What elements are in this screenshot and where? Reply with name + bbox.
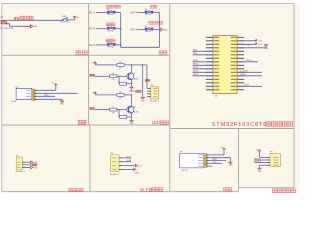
wire PB10 to MCU — [193, 61, 213, 63]
push button S2 — [107, 25, 116, 32]
svg-text:S4: S4 — [145, 9, 147, 11]
ground GND at OLED — [134, 168, 140, 175]
label key function 1 — [106, 5, 121, 8]
ground GND at LED header — [141, 97, 146, 103]
wire LED2 to R2b — [95, 109, 110, 111]
svg-text:Header 3: Header 3 — [16, 170, 26, 173]
svg-text:KEY5: KEY5 — [131, 28, 138, 31]
wire +5V to R2a — [95, 94, 117, 96]
wire S3 to bus — [116, 44, 121, 46]
wire S1 to bus — [116, 12, 121, 14]
wire MCU KEY1 pin — [237, 61, 258, 63]
svg-text:SW-PB: SW-PB — [107, 30, 114, 32]
power +5V at MCU — [255, 43, 262, 47]
ground GND at MCU — [264, 45, 269, 50]
power +5V at P3 — [220, 147, 226, 150]
svg-text:SW1: SW1 — [62, 16, 66, 18]
connector P3 bracket — [180, 154, 204, 168]
wire P3 RXD — [207, 160, 226, 162]
switch SW1 SW-SPDT — [62, 18, 75, 21]
svg-text:GND: GND — [228, 165, 233, 167]
wire KEY5 to MCU — [193, 71, 213, 73]
wire key bus left vertical — [120, 13, 122, 48]
wire P3 GND — [207, 158, 230, 162]
svg-text:S8050: S8050 — [133, 112, 138, 114]
wire P4 VCC — [35, 86, 56, 91]
connector P1 OLED Header 4 — [111, 155, 119, 172]
ground GND LED circuit 1 — [130, 86, 135, 92]
net label 灯珠 near Q1 — [136, 90, 142, 92]
wire PB11 to MCU — [193, 64, 213, 66]
section label 程序下载口 — [272, 189, 296, 193]
wire MCU GND pin — [237, 45, 266, 48]
wire P3 TXD — [207, 162, 222, 164]
svg-text:SW-PB: SW-PB — [107, 47, 114, 49]
junction circuit 2 — [131, 94, 132, 95]
svg-text:S8050: S8050 — [129, 91, 136, 93]
resistor R1c — [120, 82, 127, 85]
section label 蓝牙 module — [78, 120, 86, 124]
svg-text:S2: S2 — [107, 25, 109, 27]
svg-text:S1: S1 — [107, 9, 109, 11]
junction base circuit 2 — [118, 109, 119, 110]
wire SWD +5V — [260, 152, 267, 158]
wire MCU C_TIM pin — [237, 71, 262, 73]
junction circuit 1 — [131, 64, 132, 65]
transistor Q1 — [127, 73, 138, 81]
label key function 3 — [106, 39, 115, 42]
svg-text:KEY1: KEY1 — [89, 12, 96, 15]
svg-text:RXD: RXD — [212, 159, 217, 161]
ground GND at P4 — [60, 100, 65, 106]
net label 人体 signal — [32, 164, 37, 166]
wire collector node circuit 2 — [124, 94, 132, 96]
junction base circuit 1 — [118, 76, 119, 77]
wire MCU PWM pin — [237, 75, 262, 77]
wire key bus right vertical — [159, 13, 161, 48]
junction key bus right — [159, 29, 161, 31]
wire S5 to bus — [154, 29, 160, 31]
wire SWDIO — [255, 159, 267, 161]
svg-text:S8050: S8050 — [133, 78, 138, 80]
resistor R2c — [120, 116, 127, 119]
connector P4 pads — [26, 89, 36, 100]
wire KEY5 to S5 — [137, 29, 144, 31]
svg-text:BLE: BLE — [245, 85, 250, 87]
svg-text:GND: GND — [258, 171, 263, 173]
wire P4 RXD — [35, 95, 55, 97]
wire P3 state — [207, 165, 212, 167]
wire emitter to GND 2 — [131, 113, 133, 119]
wire LED header drop — [146, 65, 148, 89]
wire R1c to emitter node — [127, 83, 132, 85]
wire R1b to base — [117, 75, 127, 77]
wire MCU BLE pin — [237, 85, 262, 87]
power +5V at P4 — [51, 83, 58, 86]
svg-text:C_TIM3: C_TIM3 — [240, 71, 249, 73]
svg-text:BT04: BT04 — [12, 101, 17, 103]
svg-text:GND: GND — [34, 167, 39, 169]
wire connector to switch — [9, 19, 62, 21]
section label 人体感应 — [68, 188, 83, 192]
svg-text:SC-45W32-16P: SC-45W32-16P — [0, 28, 14, 30]
svg-text:Header 4: Header 4 — [110, 173, 120, 176]
connector P6 USB 5V input — [1, 20, 10, 26]
svg-text:RXD: RXD — [44, 95, 49, 97]
transistor Q2 — [127, 106, 138, 114]
wire KEY2 to S2 — [96, 28, 107, 30]
power +5V at switch output — [73, 16, 80, 20]
net label LED2 — [90, 107, 95, 109]
net label LED1 — [90, 74, 95, 76]
ground GND at P5 — [31, 166, 39, 170]
label key function 5 — [148, 21, 162, 24]
wire P3 VCC — [207, 150, 224, 155]
wire P5 signal — [26, 164, 32, 166]
wire PA0 to MCU — [193, 50, 213, 52]
ground GND LED circuit 2 — [130, 120, 135, 126]
wire connector to GND stub — [10, 25, 31, 27]
svg-text:GND: GND — [130, 123, 135, 125]
resistor R1b — [110, 73, 117, 81]
wire LED1 to MCU — [193, 75, 213, 77]
svg-text:KEY4: KEY4 — [131, 12, 138, 15]
wire R2c to emitter node — [127, 116, 132, 118]
section label 蓝牙 — [223, 187, 231, 191]
wire P4 TXD long — [35, 92, 78, 94]
svg-text:SDA: SDA — [127, 159, 132, 162]
power +5V rail LED circuit 1 — [91, 62, 96, 65]
wire MCU 5V pin — [237, 43, 256, 45]
section label 电源 — [76, 51, 88, 55]
wire collector drop circuit 1 — [131, 65, 133, 73]
ground GND of keys — [161, 28, 169, 32]
svg-text:PWM: PWM — [240, 74, 246, 76]
ground GND at SWD — [258, 167, 263, 173]
wire KEY3 to S3 — [96, 44, 107, 46]
svg-text:KEY2: KEY2 — [89, 28, 96, 31]
wire base divider drop 1 — [118, 76, 120, 83]
power +5V at P5 — [31, 161, 38, 164]
push button S4 — [145, 9, 154, 16]
junction key bus left — [120, 28, 122, 30]
wire SWCLK — [255, 162, 267, 164]
connector P4 bracket — [16, 88, 32, 99]
svg-text:Header 4: Header 4 — [150, 100, 160, 103]
svg-text:GND: GND — [60, 104, 65, 106]
svg-text:+5V: +5V — [258, 44, 262, 46]
connector P5 Header 3 — [16, 157, 22, 170]
wire emitter to GND 1 — [131, 80, 133, 86]
wire MCU VDD to +3.3 — [237, 40, 256, 42]
wire OLED SCL — [123, 157, 131, 159]
svg-text:SW-PB: SW-PB — [145, 14, 152, 16]
wire S4 to bus — [154, 12, 160, 14]
MCU pins — [206, 37, 244, 91]
svg-text:GND: GND — [164, 29, 169, 31]
power +3.3 at OLED — [135, 164, 142, 167]
wire OLED VCC — [123, 165, 136, 167]
connector P3 pads — [198, 154, 208, 167]
ground GND at power connector — [30, 25, 38, 29]
resistor R2b — [110, 107, 117, 115]
push button S3 — [107, 42, 116, 49]
label key function 4 — [150, 5, 157, 8]
wire P5 +5V — [26, 161, 31, 163]
ground GND at P3 — [228, 161, 233, 167]
svg-text:SW-PB: SW-PB — [107, 14, 114, 16]
wire KEY1 to S1 — [96, 12, 107, 14]
svg-text:GND: GND — [141, 100, 146, 102]
svg-text:STM32F103C8T6: STM32F103C8T6 — [212, 122, 268, 128]
wire KEY4 to S4 — [137, 12, 144, 14]
push button S5 — [145, 26, 154, 33]
wire base divider drop 2 — [118, 110, 120, 117]
wire +5V to R1a — [95, 64, 117, 66]
wire collector node circuit 1 — [124, 64, 147, 66]
wire S2 to bus — [116, 28, 121, 30]
svg-text:SW-SPDT: SW-SPDT — [60, 22, 70, 24]
svg-text:HC-05: HC-05 — [182, 170, 187, 172]
label key function 2 — [106, 23, 115, 26]
svg-text:S5: S5 — [145, 26, 147, 28]
power +5V at SWD — [255, 150, 261, 152]
wire P4 GND — [35, 98, 62, 101]
wire OLED GND — [123, 168, 134, 170]
svg-text:KEY1: KEY1 — [247, 60, 253, 62]
resistor R2a — [117, 92, 124, 100]
connector P6 SWD header — [270, 154, 280, 167]
section label 按键 — [159, 51, 167, 55]
wire collector drop circuit 2 — [131, 95, 133, 106]
push button S1 — [107, 9, 116, 16]
svg-text:KEY3: KEY3 — [89, 44, 96, 47]
power +3.3 at MCU — [255, 39, 263, 43]
wire PA1 to MCU — [193, 54, 213, 56]
wire OLED SDA — [123, 161, 131, 163]
net label BZ on LED wire — [145, 79, 150, 81]
svg-text:GND: GND — [33, 26, 38, 28]
power +5V rail LED circuit 2 — [91, 92, 96, 95]
wire P5 GND — [26, 166, 31, 168]
svg-text:LED: LED — [152, 120, 161, 125]
svg-text:GND: GND — [264, 48, 269, 50]
junction LED rail — [142, 64, 143, 65]
wire R2b to base — [117, 109, 127, 111]
connector P2 LED header — [151, 87, 159, 99]
svg-text:SW-PB: SW-PB — [145, 31, 152, 33]
wire LED1 to R1b — [95, 75, 110, 77]
wire KEY4 to MCU — [193, 68, 213, 70]
MCU U2 STM32F103C8T6 — [213, 36, 237, 94]
svg-text:S3: S3 — [107, 42, 109, 44]
svg-text:SWCLK: SWCLK — [254, 161, 262, 163]
wire key bus bottom — [121, 46, 160, 48]
resistor R1a — [117, 62, 124, 70]
wire SWD GND — [260, 165, 267, 167]
wire ground rail vertical — [142, 65, 144, 97]
svg-text:TXD: TXD — [212, 162, 217, 164]
svg-text:GND: GND — [135, 173, 140, 175]
